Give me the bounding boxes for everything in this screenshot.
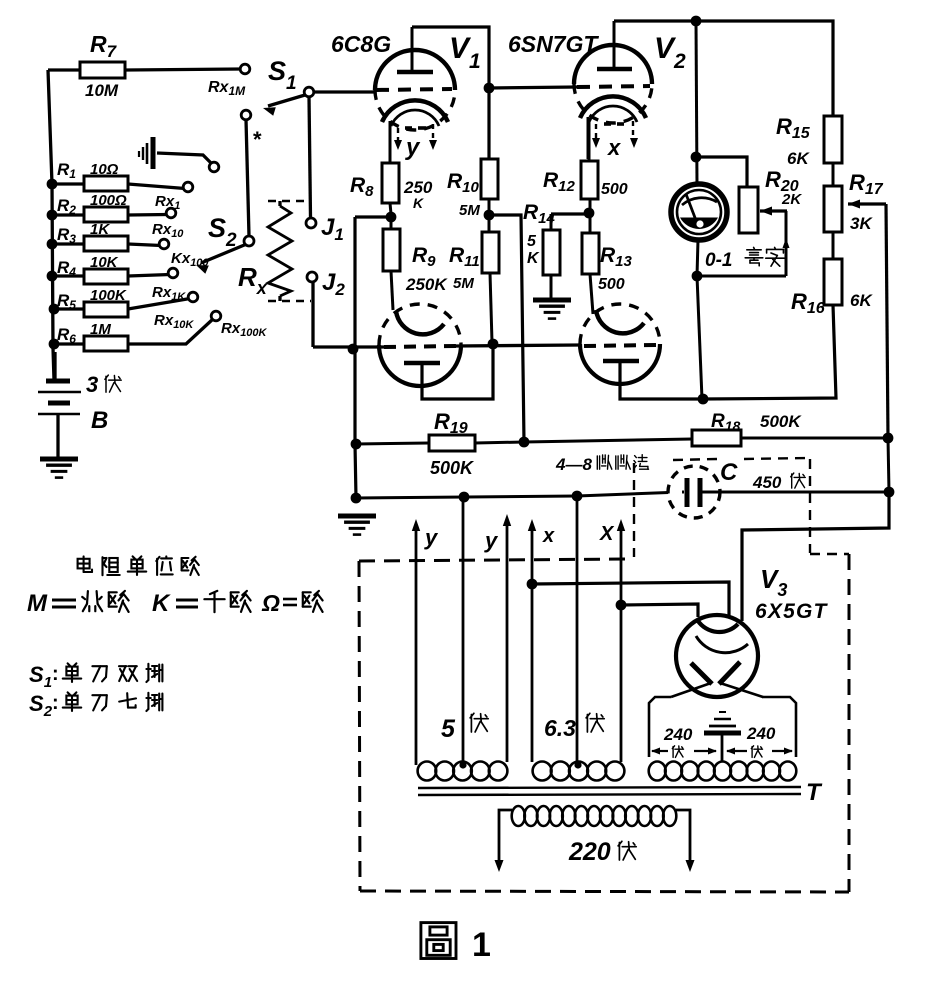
- wire left bus: [48, 70, 54, 380]
- wire heater A to V3: [532, 582, 729, 618]
- junction x heater: [527, 579, 538, 590]
- svg-text::: :: [52, 663, 59, 685]
- svg-text:500: 500: [601, 181, 628, 198]
- wire R20 wiper: [760, 209, 787, 212]
- svg-text:6C8G: 6C8G: [331, 31, 391, 57]
- wire R10 junction to R19 line: [489, 215, 524, 442]
- svg-text:6SN7GT: 6SN7GT: [508, 31, 599, 57]
- resistor R3: [47, 239, 58, 250]
- svg-text:y: y: [484, 528, 499, 553]
- junction grid R11: [488, 339, 499, 350]
- svg-text:*: *: [253, 127, 262, 152]
- wire RX dashed bottom: [268, 300, 311, 303]
- junction 450V: [884, 487, 895, 498]
- wire center vertical to ground: [355, 217, 356, 498]
- pin V1 grid: [376, 89, 452, 90]
- svg-text:1: 1: [472, 926, 491, 964]
- resistor R17: [824, 186, 842, 232]
- terminal J1: [306, 218, 316, 228]
- svg-text:240: 240: [746, 724, 776, 743]
- wire S1 contact to S2 pivot: [246, 120, 249, 237]
- resistor R18: [524, 439, 692, 442]
- svg-text:220: 220: [568, 838, 611, 866]
- pin V2b grid: [584, 345, 656, 346]
- terminal RX1M: [240, 64, 250, 74]
- svg-text:0-1: 0-1: [705, 250, 732, 271]
- junction cathode meter: [698, 394, 709, 405]
- resistor R13: [589, 213, 592, 233]
- svg-text:K: K: [527, 250, 540, 267]
- svg-text:500: 500: [598, 276, 625, 293]
- pin V1b plate: [396, 311, 444, 334]
- terminal R3 tap: [159, 239, 169, 249]
- wire R17 wiper: [848, 202, 886, 205]
- text resistance units: [78, 559, 90, 569]
- wire R8 junction left: [355, 215, 391, 218]
- svg-text:X: X: [599, 523, 615, 545]
- wire y lead 1: [415, 527, 418, 765]
- svg-text:x: x: [607, 135, 621, 160]
- svg-text:2K: 2K: [781, 191, 802, 208]
- transformer winding 5V: [418, 762, 437, 781]
- wire grid line: [313, 345, 384, 348]
- wire x lead 1: [531, 527, 534, 762]
- wire RX dashed top: [268, 200, 307, 203]
- wire J2 to grid line: [311, 282, 314, 347]
- svg-text:3: 3: [86, 372, 98, 397]
- svg-text:500K: 500K: [430, 458, 475, 478]
- resistor R9: [390, 217, 393, 229]
- resistor R15: [824, 116, 842, 163]
- resistor R20 shunt: [739, 187, 758, 233]
- svg-text:5M: 5M: [453, 275, 474, 292]
- ground R14: [533, 298, 571, 303]
- svg-text:100K: 100K: [90, 287, 127, 304]
- svg-text:100Ω: 100Ω: [90, 192, 127, 209]
- capacitor C: [668, 466, 720, 518]
- junction R8 R9: [386, 212, 397, 223]
- svg-text:450: 450: [752, 473, 782, 492]
- pin V2 plate: [613, 21, 616, 69]
- svg-text::: :: [52, 692, 59, 714]
- wire dashed C branch left: [633, 463, 635, 557]
- node A junction: [484, 83, 495, 94]
- junction R18 right: [883, 433, 894, 444]
- svg-text:Ω: Ω: [261, 590, 280, 616]
- wire V1 cathode to R8: [389, 121, 392, 163]
- wire V1 plate to node A: [412, 27, 489, 159]
- wire y winding center: [462, 497, 465, 764]
- wire R16 bottom to cathode junction: [703, 305, 836, 399]
- svg-text:10K: 10K: [90, 254, 119, 271]
- label y output arrows: [397, 128, 399, 143]
- junction R10 R11: [484, 210, 495, 221]
- terminal R4 tap: [168, 268, 178, 278]
- wire S1 pivot to J1: [309, 96, 311, 218]
- resistor R4: [47, 271, 58, 282]
- wire dashed C branch right: [809, 459, 811, 553]
- pin V1b grid: [384, 346, 456, 347]
- wire meter bottom: [697, 240, 698, 276]
- wire meter from top bus: [696, 21, 697, 186]
- wire node A to V2 grid: [489, 87, 577, 88]
- svg-text:B: B: [91, 407, 108, 434]
- wire HV output to V3: [742, 492, 889, 621]
- meter M 0-1 mA: [671, 184, 727, 240]
- wire lower bus: [356, 496, 577, 498]
- wire B to V3: [621, 604, 698, 617]
- pin V1b cathode: [404, 361, 440, 366]
- resistor R7: [48, 68, 80, 71]
- wire meter shunt top: [696, 157, 747, 187]
- svg-text:K: K: [152, 590, 171, 617]
- svg-text:1M: 1M: [90, 321, 111, 338]
- terminal R6 tap: [211, 311, 221, 321]
- wire V3 plate right to winding: [720, 683, 763, 697]
- svg-text:5M: 5M: [459, 202, 480, 219]
- svg-text:K: K: [413, 195, 424, 211]
- junction meter tap: [691, 16, 702, 27]
- pin V2 grid: [577, 86, 650, 87]
- transformer HV winding 240-240: [649, 697, 671, 757]
- wire x lead 2: [620, 527, 623, 605]
- svg-text:y: y: [424, 525, 439, 550]
- terminal R2 tap: [166, 208, 176, 218]
- pin V3 plates: [691, 663, 712, 684]
- pin V2 cathode: [580, 96, 646, 118]
- pin V1 cathode: [382, 100, 448, 122]
- ground S2 zero contact: [151, 137, 156, 169]
- svg-text:250K: 250K: [405, 275, 448, 294]
- svg-text:6K: 6K: [850, 291, 873, 310]
- resistor R5: [49, 304, 60, 315]
- resistor R10: [481, 159, 498, 199]
- transformer enclosure dashed box: [359, 559, 633, 561]
- svg-text:C: C: [720, 459, 738, 486]
- svg-text:5: 5: [441, 715, 456, 743]
- ground center: [338, 514, 376, 519]
- svg-text:6K: 6K: [787, 149, 810, 168]
- svg-text:10Ω: 10Ω: [90, 161, 119, 178]
- resistor R1: [47, 179, 58, 190]
- junction R12 R13: [584, 208, 595, 219]
- svg-text:5: 5: [527, 233, 537, 250]
- resistor R8: [382, 163, 399, 203]
- transformer winding 6.3V: [533, 762, 552, 781]
- svg-text:6.3: 6.3: [544, 715, 576, 741]
- transformer core: [418, 787, 801, 788]
- tube V1 lower triode: [379, 345, 461, 386]
- resistor R19: [356, 443, 429, 444]
- terminal R5 tap: [188, 292, 198, 302]
- svg-text:M: M: [27, 590, 48, 617]
- resistor RX unknown: [268, 206, 292, 296]
- resistor R11: [488, 215, 491, 232]
- wire y lead 2: [506, 522, 509, 762]
- tube V2 lower triode: [580, 344, 660, 384]
- svg-text:500K: 500K: [760, 412, 802, 431]
- wire S1 to V1 grid: [314, 90, 377, 93]
- junction meter bottom: [692, 271, 703, 282]
- svg-text:1K: 1K: [90, 221, 110, 238]
- pin V2b plate: [596, 310, 644, 333]
- ground battery: [40, 457, 78, 462]
- caption figure 1: [421, 923, 456, 959]
- wire x winding center: [576, 496, 579, 762]
- junction X to V3: [616, 600, 627, 611]
- resistor R12: [588, 120, 591, 161]
- wire V3 plate left to winding: [671, 683, 711, 697]
- resistor R6: [49, 339, 60, 350]
- svg-text:10M: 10M: [85, 81, 119, 100]
- junction meter top: [691, 152, 702, 163]
- resistor R2: [47, 210, 58, 221]
- resistor R14: [550, 214, 553, 230]
- svg-text:6X5GT: 6X5GT: [755, 600, 828, 623]
- pin V1 plate: [411, 27, 414, 72]
- resistor R16: [824, 259, 842, 305]
- svg-text:T: T: [806, 779, 823, 806]
- svg-text:4—8: 4—8: [555, 455, 592, 474]
- pin V2b cathode: [603, 359, 639, 364]
- svg-text:240: 240: [663, 725, 693, 744]
- transformer primary 220V: [499, 810, 512, 861]
- terminal J2: [307, 272, 317, 282]
- svg-text:x: x: [542, 525, 555, 547]
- svg-text:3K: 3K: [850, 214, 873, 233]
- svg-text:y: y: [405, 134, 421, 161]
- terminal R1 tap: [183, 182, 193, 192]
- wire S2 zero contact: [157, 153, 211, 163]
- ground HV center tap: [719, 711, 726, 713]
- pin V3 cathode arcs: [698, 621, 738, 632]
- battery B 3V: [53, 352, 56, 381]
- junction R19 R18: [519, 437, 530, 448]
- wire V2 plate top bus: [614, 21, 833, 116]
- label x output arrows: [595, 124, 597, 141]
